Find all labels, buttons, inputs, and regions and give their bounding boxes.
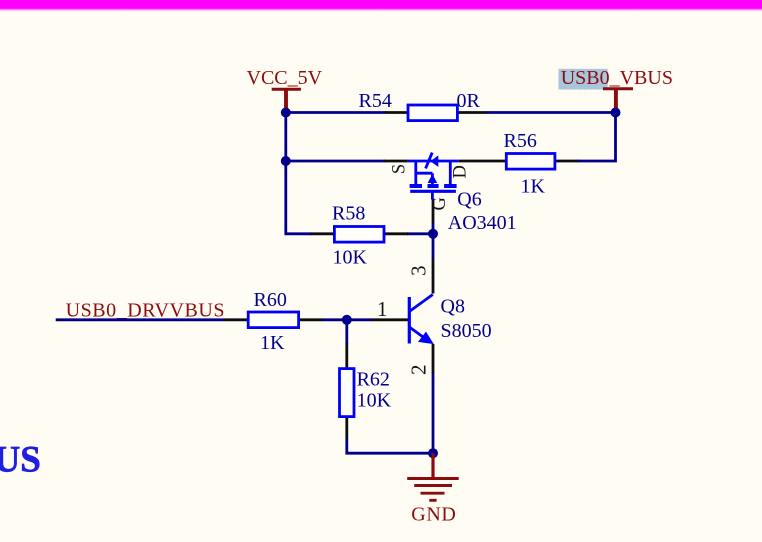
pin stub: Q6 source pin xyxy=(384,160,408,163)
power symbol USB0_VBUS stem xyxy=(614,89,618,111)
junction dot at VCC/R54 xyxy=(281,108,291,118)
svg-text:10K: 10K xyxy=(333,246,368,268)
ground bar 3 xyxy=(421,492,445,495)
junction dot at VCC/source row xyxy=(281,156,291,166)
svg-text:AO3401: AO3401 xyxy=(448,212,517,234)
svg-text:US: US xyxy=(0,440,41,481)
svg-text:D: D xyxy=(451,165,471,178)
ground bar 1 xyxy=(407,477,459,480)
pin stub: R60 pin 2 xyxy=(299,318,323,321)
junction dot at emitter/GND node xyxy=(428,448,438,458)
transistor Q6 PMOS symbol xyxy=(408,153,459,200)
svg-text:R62: R62 xyxy=(357,369,390,391)
pin stub: Q8 emitter pin xyxy=(432,344,435,373)
svg-text:3: 3 xyxy=(407,265,431,276)
wire: right vertical from USB0_VBUS junction down to R56 row xyxy=(577,113,616,162)
ground bar 4 xyxy=(429,499,436,502)
Q6 gate lead xyxy=(431,191,434,199)
Q6 drain drop xyxy=(449,161,452,186)
resistor R58 body xyxy=(334,227,384,243)
Q6 gate plate xyxy=(410,190,456,193)
svg-text:VCC_5V: VCC_5V xyxy=(247,67,323,89)
power symbol VCC_5V stem xyxy=(284,89,288,110)
wire: row2 junction to Q6 source xyxy=(286,160,385,163)
wire: R62 bottom to bottom rail corner xyxy=(347,439,433,453)
svg-text:R60: R60 xyxy=(254,289,287,311)
wire: gate junction down to Q8 collector pin xyxy=(432,234,435,259)
svg-text:USB0_VBUS: USB0_VBUS xyxy=(561,67,673,89)
wire: Q8 emitter down to bottom rail xyxy=(432,372,435,453)
svg-text:1K: 1K xyxy=(521,176,546,198)
Q6 body diode triangle xyxy=(430,155,438,167)
junction dot at base node xyxy=(342,315,352,325)
Q6 body tie xyxy=(416,172,433,175)
power symbol USB0_VBUS bar xyxy=(603,87,633,90)
svg-text:S: S xyxy=(390,164,410,174)
Q6 channel contact segments xyxy=(410,184,422,188)
pin stub: R58 pin 2 xyxy=(384,232,408,235)
ground bar 2 xyxy=(414,484,452,487)
top magenta banner xyxy=(0,0,762,12)
pin stub: R62 pin 2 xyxy=(345,417,348,440)
pin stub: Q6 drain pin + R56 pin 1 xyxy=(458,160,506,163)
ground stem xyxy=(431,453,434,478)
Q6 body diode cathode bar xyxy=(426,153,433,169)
highlight box on USB0 xyxy=(559,69,608,90)
pin stub: Q6 gate pin xyxy=(432,199,435,223)
wire: gate pin to junction vertical xyxy=(432,222,435,235)
resistor R54 body xyxy=(408,105,457,121)
Q6 source-drain top line xyxy=(408,160,459,163)
svg-text:R56: R56 xyxy=(504,130,537,152)
Q8 base bar xyxy=(408,297,411,344)
wire: corner to R58 left xyxy=(285,232,312,235)
pin stub: R54 pin 1 xyxy=(385,111,408,114)
Q6 source drop xyxy=(414,161,417,186)
resistor R56 body xyxy=(506,154,555,170)
resistor R60 body xyxy=(248,312,298,328)
svg-text:GND: GND xyxy=(411,504,456,526)
wire: base junction down to R62 top xyxy=(345,320,348,344)
resistor R62 body xyxy=(340,369,355,417)
Q8 collector diagonal xyxy=(409,295,433,312)
junction dot at gate node xyxy=(428,229,438,239)
pin stub: R60 pin 1 xyxy=(224,318,248,321)
pin stub: R62 pin 1 xyxy=(345,343,348,368)
wire: R60 right to base junction xyxy=(322,318,373,321)
wire: R54 right to right vertical xyxy=(486,111,617,114)
wire: VCC vertical down column xyxy=(284,109,287,234)
svg-text:USB0_DRVVBUS: USB0_DRVVBUS xyxy=(66,299,225,321)
Q8 emitter diagonal xyxy=(409,327,430,342)
Q6 substrate arrow xyxy=(428,174,438,183)
wire: VCC_5V node to R54 left xyxy=(286,111,386,114)
svg-text:R54: R54 xyxy=(359,90,392,112)
pin stub: Q8 collector pin xyxy=(432,259,435,294)
svg-text:G: G xyxy=(430,197,450,210)
pin stub: Q8 base pin xyxy=(372,318,408,321)
power symbol VCC_5V bar xyxy=(272,88,301,91)
pin stub: R58 pin 1 xyxy=(310,232,334,235)
junction dot at USB0_VBUS xyxy=(611,108,621,118)
svg-text:2: 2 xyxy=(406,365,430,376)
wire: USB0_DRVVBUS lead-in to R60 xyxy=(56,318,225,321)
svg-text:Q6: Q6 xyxy=(457,188,481,210)
transistor Q8 NPN symbol xyxy=(409,295,434,345)
svg-text:0R: 0R xyxy=(457,90,481,112)
svg-text:Q8: Q8 xyxy=(441,296,465,318)
Q8 emitter arrow xyxy=(418,332,434,345)
svg-text:1K: 1K xyxy=(260,332,285,354)
pin stub: R54 pin 2 xyxy=(457,111,487,114)
svg-text:1: 1 xyxy=(377,297,388,321)
pin stub: R56 pin 2 xyxy=(555,160,578,163)
svg-text:R58: R58 xyxy=(332,203,365,225)
svg-text:10K: 10K xyxy=(357,390,392,412)
svg-text:S8050: S8050 xyxy=(441,320,492,342)
wire: R58 right to gate junction xyxy=(407,232,434,235)
